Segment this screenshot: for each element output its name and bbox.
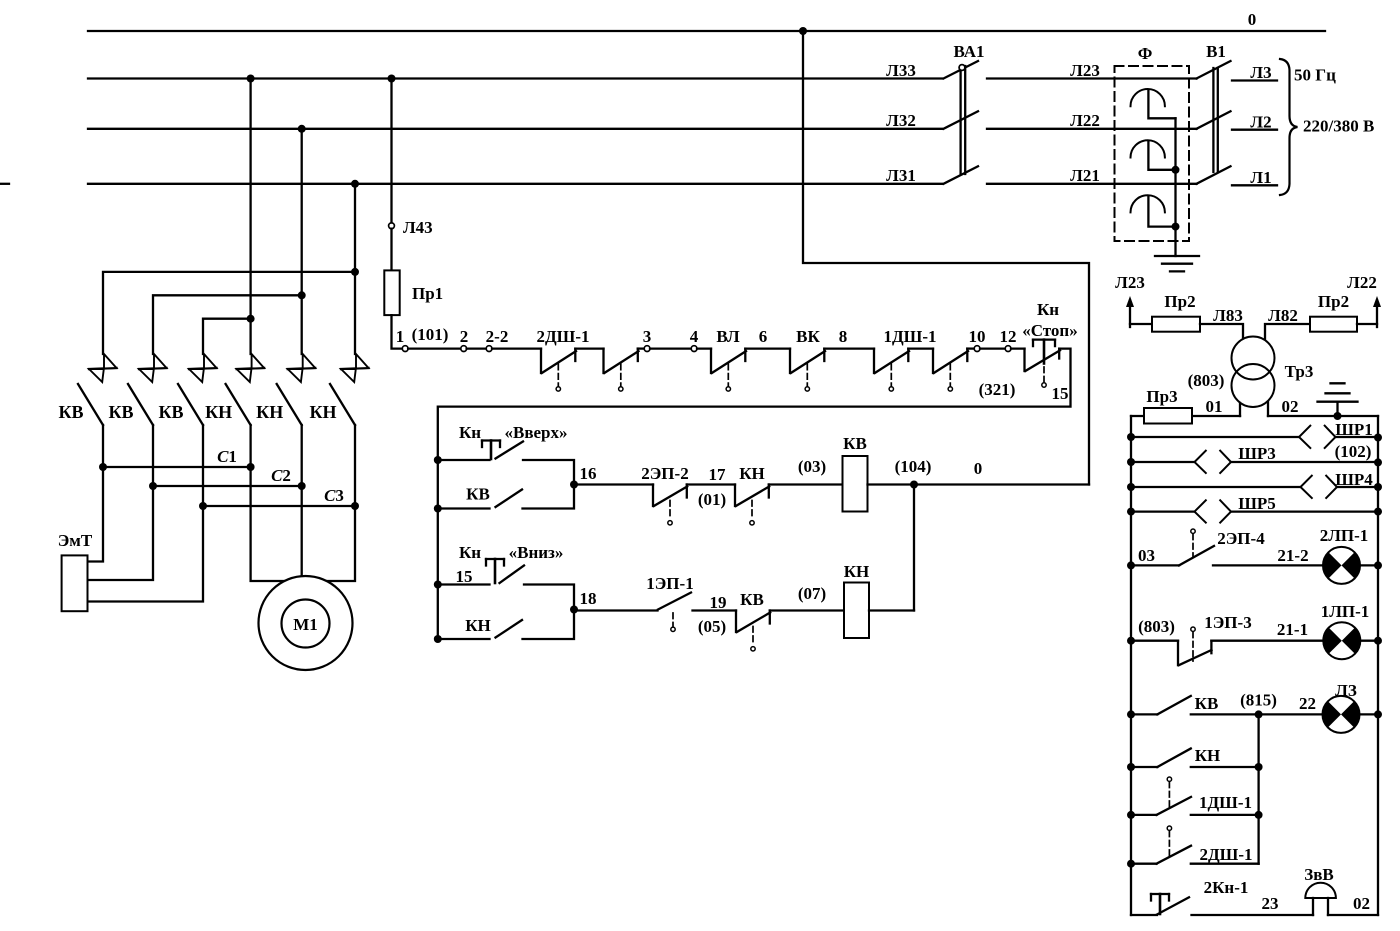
svg-text:18: 18: [580, 589, 597, 608]
node 02 label: [1282, 397, 1299, 416]
junction dot КН row: [1127, 763, 1135, 771]
label (321): [979, 380, 1016, 399]
pressure switch 1ЭП-3 (NC): [1178, 613, 1252, 665]
junction dot C1 left: [99, 463, 107, 471]
svg-text:Тр3: Тр3: [1285, 362, 1314, 381]
svg-text:0: 0: [974, 459, 983, 478]
wire 0-net drop: [803, 31, 1089, 485]
label 220/380 В: [1303, 117, 1374, 136]
node 0 label: [1248, 10, 1257, 29]
svg-text:Пр1: Пр1: [412, 284, 443, 303]
svg-text:2ДШ-1: 2ДШ-1: [1199, 845, 1252, 864]
wire ШР4 row: [1131, 486, 1378, 488]
wire between 1ДШ-1 contacts: [908, 347, 933, 349]
wire 12-stop: [1011, 347, 1025, 349]
svg-text:1ЛП-1: 1ЛП-1: [1321, 602, 1370, 621]
wire node 8: [824, 347, 874, 349]
wire to node 10: [967, 347, 974, 349]
wire neutral bus 0: [88, 30, 1325, 32]
wire 19: [693, 609, 737, 611]
junction dot C3 left: [199, 502, 207, 510]
svg-text:ШР4: ШР4: [1335, 470, 1373, 489]
svg-text:(815): (815): [1240, 691, 1277, 710]
label (102): [1335, 442, 1372, 461]
svg-text:220/380 В: 220/380 В: [1303, 117, 1374, 136]
phase line Л33 (left): [88, 77, 942, 79]
auxiliary contact КН (seal-in down): [438, 610, 574, 640]
wire 104 drop: [913, 485, 915, 611]
svg-text:6: 6: [759, 327, 768, 346]
junction dot bus-КН: [434, 635, 442, 643]
wire Тр3 sec right: [1267, 402, 1269, 417]
lamp 1ЛП-1: [1321, 602, 1370, 659]
junction dot C2 left: [149, 482, 157, 490]
node С2 label: [271, 466, 291, 485]
wire 815 drop: [1257, 714, 1259, 863]
wire 1-2: [408, 347, 461, 349]
svg-text:1ЭП-1: 1ЭП-1: [646, 574, 693, 593]
svg-text:1: 1: [396, 327, 405, 346]
wire ШР5 row: [1131, 510, 1378, 512]
wire left bus panel: [1130, 416, 1132, 915]
label node 15 (chain): [1052, 384, 1069, 403]
svg-text:ШР1: ШР1: [1335, 420, 1373, 439]
label 6: [759, 327, 768, 346]
wire to motor 1: [251, 467, 286, 581]
junction dot C1 right: [247, 463, 255, 471]
svg-text:Кн: Кн: [459, 543, 481, 562]
node Л43 terminal: [389, 218, 433, 237]
junction dots ШР1 row: [1127, 433, 1382, 442]
svg-text:КН: КН: [309, 402, 336, 422]
junction dots ШР4 row: [1127, 483, 1382, 491]
svg-text:02: 02: [1282, 397, 1299, 416]
svg-text:Л31: Л31: [886, 166, 916, 185]
motor M1: [259, 576, 353, 670]
junction dots ШР3 row: [1127, 458, 1382, 466]
svg-text:КВ: КВ: [58, 402, 83, 422]
contactor main contact КВ2: [108, 354, 166, 486]
phase line Л31 (left): [88, 183, 942, 185]
junction dot 2ДШ-1 row: [1127, 860, 1135, 868]
wire 21-2: [1213, 546, 1323, 565]
wire lamp3 out: [1360, 713, 1379, 715]
svg-text:(07): (07): [798, 584, 826, 603]
connector ШР4: [1301, 470, 1374, 498]
svg-text:КН: КН: [256, 402, 283, 422]
wire bottom row left: [1131, 914, 1157, 916]
node 17 label: [709, 465, 727, 484]
pushbutton 2Кн-1: [1151, 878, 1248, 915]
svg-text:10: 10: [969, 327, 986, 346]
phase line Л22: [987, 128, 1197, 130]
wire 1ДШ-1 row left: [1131, 814, 1157, 816]
wire 2ДШ-1 row left: [1131, 863, 1157, 865]
node 1 terminal: [396, 327, 408, 352]
wire to brake 2: [88, 486, 154, 580]
wire Пр2-Л22: [1357, 323, 1377, 325]
svg-text:1ДШ-1: 1ДШ-1: [883, 327, 936, 346]
junction dot Л43 tap: [388, 75, 396, 83]
svg-text:(803): (803): [1138, 617, 1175, 636]
svg-text:ВЛ: ВЛ: [716, 327, 740, 346]
svg-text:Кн: Кн: [459, 423, 481, 442]
svg-text:12: 12: [1000, 327, 1017, 346]
label (803) node: [1188, 371, 1225, 390]
pushbutton Кн Стоп: [1022, 300, 1077, 387]
svg-text:23: 23: [1262, 894, 1279, 913]
svg-text:1ДШ-1: 1ДШ-1: [1199, 793, 1252, 812]
junction dot tap Л31: [351, 180, 359, 188]
svg-text:М1: М1: [293, 615, 318, 634]
svg-text:ЗвВ: ЗвВ: [1304, 865, 1334, 884]
svg-text:2ЭП-4: 2ЭП-4: [1217, 529, 1265, 548]
junction dot bus-КВ: [434, 505, 442, 513]
label ВК: [796, 327, 820, 346]
svg-text:Л33: Л33: [886, 61, 916, 80]
svg-text:15: 15: [456, 567, 473, 586]
svg-text:КВ: КВ: [740, 590, 764, 609]
junction dot lamp1 out: [1374, 561, 1382, 569]
svg-text:19: 19: [710, 593, 727, 612]
junction dot node 16: [570, 481, 578, 489]
wire 815: [1191, 713, 1323, 715]
junction dot Ф common 1: [1172, 166, 1180, 174]
fuse Пр2 (right): [1310, 292, 1357, 332]
wire tap drop 2: [301, 129, 303, 354]
node Л1 stub: [1232, 168, 1277, 187]
limit switch 1ДШ-1 contact b: [933, 349, 968, 391]
svg-text:С3: С3: [324, 486, 344, 505]
wire 18 to 1ЭП-1: [574, 609, 658, 611]
junction dot C2 right: [298, 482, 306, 490]
node 01 label: [1206, 397, 1223, 416]
node 2-2 terminal: [486, 327, 509, 352]
junction dot bus-Вниз: [434, 581, 442, 589]
svg-text:Л32: Л32: [886, 111, 916, 130]
junction on bus 0 at x=803: [799, 27, 807, 35]
wire secondary right: [1268, 415, 1378, 417]
svg-text:ВА1: ВА1: [953, 42, 984, 61]
phase line Л23: [987, 77, 1197, 79]
svg-text:Л22: Л22: [1070, 111, 1100, 130]
svg-text:22: 22: [1299, 694, 1316, 713]
svg-text:2ДШ-1: 2ДШ-1: [536, 327, 589, 346]
svg-text:2: 2: [460, 327, 469, 346]
contactor main contact КВ3: [158, 354, 216, 506]
junction dot lamp2 out: [1374, 637, 1382, 645]
svg-text:«Вверх»: «Вверх»: [504, 423, 567, 442]
connector ШР3-ШР4 pair: [1195, 444, 1276, 473]
fuse Пр3: [1144, 387, 1192, 424]
svg-text:8: 8: [839, 327, 848, 346]
auxiliary contact КН (lamp): [1157, 746, 1220, 767]
junction dot node 815: [1255, 710, 1263, 718]
pushbutton Кн Вниз: [438, 543, 574, 610]
junction dot 2ЭП-4 row: [1127, 561, 1135, 569]
junction dot jumper3: [247, 315, 255, 323]
wire jumper КВ3: [203, 319, 251, 354]
label (03): [798, 457, 826, 476]
contactor main contact КВ1: [58, 354, 116, 467]
connector ШР1: [1299, 420, 1373, 448]
auxiliary contact КВ (lamp): [1157, 694, 1218, 714]
label (104): [895, 457, 932, 476]
junction dot 815-КН: [1255, 763, 1263, 771]
wire node 6: [745, 347, 790, 349]
svg-text:Пр2: Пр2: [1164, 292, 1195, 311]
pressure switch 2ЭП-4: [1179, 529, 1265, 565]
junction dots ШР5 row: [1127, 508, 1382, 516]
interlock contact КН (NC): [735, 464, 769, 525]
contactor main contact КН2: [256, 354, 315, 486]
arrester element 3 in Ф: [1131, 195, 1176, 226]
node Л22 label: [1070, 111, 1100, 130]
node С1 label: [217, 447, 237, 466]
svg-text:17: 17: [709, 465, 727, 484]
pressure switch 2ЭП-2: [641, 464, 688, 525]
svg-text:ШР5: ШР5: [1238, 494, 1276, 513]
node Л23 label: [1070, 61, 1100, 80]
label (101): [412, 325, 449, 344]
junction dot КВ row: [1127, 710, 1135, 718]
switch В1 (3-pole): [1197, 42, 1231, 184]
wire (803) row: [1131, 617, 1178, 641]
wire 4-ВЛ: [697, 347, 711, 349]
svg-text:4: 4: [690, 327, 699, 346]
svg-text:02: 02: [1353, 894, 1370, 913]
wire Л23-Пр2: [1130, 323, 1152, 325]
wire 3-4: [650, 347, 691, 349]
phase line Л32 (left): [88, 128, 942, 130]
wire КН row left: [1131, 766, 1157, 768]
wire fuse to node 1: [392, 315, 403, 349]
wire ШР3 row: [1131, 461, 1378, 463]
svg-text:(104): (104): [895, 457, 932, 476]
svg-text:КВ: КВ: [466, 485, 490, 504]
junction dot Ф common 2: [1172, 223, 1180, 231]
svg-text:(803): (803): [1188, 371, 1225, 390]
wire Л82-Пр2: [1265, 324, 1310, 341]
svg-text:КН: КН: [205, 402, 232, 422]
wire tap drop 3: [354, 184, 356, 354]
junction dot 1ДШ-1 row: [1127, 811, 1135, 819]
wire to motor 3: [325, 506, 355, 581]
svg-text:В1: В1: [1206, 42, 1226, 61]
wire secondary left: [1131, 415, 1240, 417]
wire Пр2-Л83: [1200, 324, 1243, 339]
svg-text:Л1: Л1: [1250, 168, 1271, 187]
wire coil КН up: [869, 609, 914, 611]
wire chain return: [438, 349, 1071, 639]
junction dot jumper1: [351, 268, 359, 276]
wire Ф common vertical: [1174, 118, 1176, 256]
svg-text:(102): (102): [1335, 442, 1372, 461]
limit switch 2ДШ-1 contact a: [541, 349, 576, 391]
label ВЛ: [716, 327, 740, 346]
svg-text:КВ: КВ: [158, 402, 183, 422]
wire 23: [1192, 894, 1314, 915]
wire 16 to 2ЭП-2: [574, 483, 653, 485]
transformer Тр3: [1232, 337, 1314, 408]
svg-text:С2: С2: [271, 466, 291, 485]
svg-text:КВ: КВ: [843, 434, 867, 453]
limit switch ВЛ: [711, 349, 746, 391]
fuse Пр1: [384, 270, 443, 315]
node 2 terminal: [460, 327, 469, 352]
label 22: [1299, 694, 1316, 713]
wire jumper КВ2: [153, 295, 302, 354]
svg-text:Ф: Ф: [1138, 44, 1153, 63]
wire 10-12: [980, 347, 1005, 349]
svg-text:КН: КН: [465, 616, 491, 635]
auxiliary contact КВ (seal-in up): [438, 485, 574, 509]
node Л3 stub: [1232, 63, 1277, 82]
svg-text:«Стоп»: «Стоп»: [1022, 321, 1077, 340]
label 0 (rung): [974, 459, 983, 478]
pressure switch 1ЭП-1 (NO): [646, 574, 693, 632]
wire to node 3: [638, 347, 644, 349]
wire C3: [203, 505, 355, 507]
svg-text:С1: С1: [217, 447, 237, 466]
label (01): [698, 490, 726, 509]
svg-text:21-1: 21-1: [1277, 620, 1308, 639]
label 1ДШ-1 (chain): [883, 327, 936, 346]
node 4 terminal: [690, 327, 699, 352]
svg-text:Л22: Л22: [1347, 273, 1377, 292]
wire (03): [769, 483, 843, 485]
wire ШР1 row: [1131, 436, 1378, 438]
wire КВ row left: [1131, 713, 1157, 715]
junction dot lamp3 out: [1374, 710, 1382, 718]
junction dot node 18: [570, 606, 578, 614]
arrester element 1 in Ф: [1131, 89, 1176, 118]
svg-text:Пр2: Пр2: [1318, 292, 1349, 311]
limit switch 2ДШ-1 contact b: [604, 349, 639, 391]
svg-text:Л83: Л83: [1213, 306, 1243, 325]
node Л83 label: [1213, 306, 1243, 325]
contactor main contact КН3: [309, 354, 368, 506]
svg-text:Л23: Л23: [1115, 273, 1145, 292]
svg-text:КН: КН: [1195, 746, 1221, 765]
arrester element 2 in Ф: [1131, 140, 1176, 170]
wire between 2ДШ-1 contacts: [575, 347, 603, 349]
svg-text:ЛЗ: ЛЗ: [1335, 681, 1357, 700]
wire C2: [153, 485, 302, 487]
svg-text:КН: КН: [844, 562, 870, 581]
wire C1: [103, 466, 251, 468]
wire to 2ДШ-1: [492, 347, 541, 349]
filter Ф dashed box: [1115, 66, 1190, 241]
svg-text:(05): (05): [698, 617, 726, 636]
svg-text:0: 0: [1248, 10, 1257, 29]
lamp 2ЛП-1: [1320, 526, 1369, 584]
junction dot tap Л32: [298, 125, 306, 133]
relay coil КН: [844, 562, 870, 638]
wire to motor 2: [301, 486, 303, 576]
svg-text:Пр3: Пр3: [1146, 387, 1177, 406]
node Л21 label: [1070, 166, 1100, 185]
relay coil КВ: [843, 434, 868, 512]
svg-text:50 Гц: 50 Гц: [1294, 66, 1336, 85]
svg-text:2-2: 2-2: [486, 327, 509, 346]
node Л31 label: [886, 166, 916, 185]
svg-text:Кн: Кн: [1037, 300, 1059, 319]
svg-text:ШР3: ШР3: [1238, 444, 1276, 463]
svg-text:2ЛП-1: 2ЛП-1: [1320, 526, 1369, 545]
off-page arrow Л22: [1347, 273, 1381, 327]
svg-text:КН: КН: [739, 464, 765, 483]
svg-text:(101): (101): [412, 325, 449, 344]
junction dot ground: [1334, 412, 1342, 420]
svg-text:Л21: Л21: [1070, 166, 1100, 185]
wire tap to Л43: [390, 79, 392, 223]
junction dot C3 right: [351, 502, 359, 510]
wire 2ДШ-1 row right: [1191, 863, 1259, 865]
junction dot bus-Вверх: [434, 456, 442, 464]
wire right bus panel: [1377, 416, 1379, 915]
svg-text:(03): (03): [798, 457, 826, 476]
pushbutton Кн Вверх: [438, 423, 574, 485]
junction dot 1ЭП-3 row: [1127, 637, 1135, 645]
svg-text:Л43: Л43: [403, 218, 433, 237]
svg-text:(321): (321): [979, 380, 1016, 399]
connector ШР5: [1195, 494, 1276, 523]
junction dot node 104: [910, 481, 918, 489]
svg-text:ЭмТ: ЭмТ: [58, 531, 93, 550]
node 12 terminal: [1000, 327, 1017, 352]
wire tap drop 1: [249, 79, 251, 355]
margin tick: [0, 183, 9, 185]
wire (07): [770, 609, 844, 611]
svg-text:15: 15: [1052, 384, 1069, 403]
wire lamp2 out: [1360, 640, 1378, 642]
svg-text:«Вниз»: «Вниз»: [509, 543, 564, 562]
wire 17: [687, 483, 735, 485]
label 8: [839, 327, 848, 346]
fuse Пр2 (left): [1152, 292, 1200, 332]
node С3 label: [324, 486, 344, 505]
wire КН row right: [1191, 766, 1259, 768]
lamp ЛЗ: [1322, 681, 1359, 733]
junction dot 815-1ДШ: [1255, 811, 1263, 819]
wire 21-1: [1211, 620, 1323, 641]
svg-text:Л2: Л2: [1250, 113, 1271, 132]
phase line Л21: [987, 183, 1197, 185]
wire 1ДШ-1 row right: [1191, 814, 1259, 816]
wire 02: [1328, 894, 1378, 915]
bell ЗвВ: [1304, 865, 1336, 915]
svg-text:Л3: Л3: [1250, 63, 1271, 82]
brace supply rating: [1280, 59, 1298, 195]
wire jumper КВ1: [103, 272, 355, 354]
wire Тр3 sec left: [1239, 403, 1241, 416]
svg-text:2Кн-1: 2Кн-1: [1204, 878, 1249, 897]
svg-text:ВК: ВК: [796, 327, 820, 346]
limit switch ВК: [790, 349, 825, 391]
svg-text:01: 01: [1206, 397, 1223, 416]
node 18 label: [580, 589, 597, 608]
svg-text:16: 16: [580, 464, 597, 483]
off-page arrow Л23: [1115, 273, 1145, 327]
switch ВА1 (3-pole): [944, 42, 985, 184]
node 16 label: [580, 464, 597, 483]
interlock contact КВ (NC): [736, 590, 770, 651]
svg-text:Л23: Л23: [1070, 61, 1100, 80]
node 10 terminal: [969, 327, 986, 352]
wire lamp1 out: [1360, 564, 1378, 566]
ground near Тр3: [1318, 383, 1358, 416]
